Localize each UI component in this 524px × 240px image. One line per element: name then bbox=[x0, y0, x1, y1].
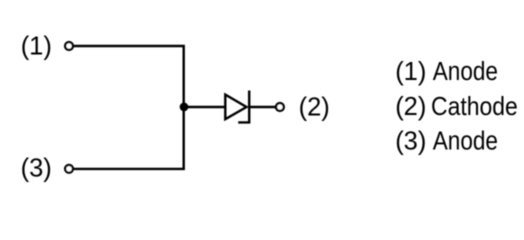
svg-text:Cathode: Cathode bbox=[431, 93, 518, 121]
svg-text:Anode: Anode bbox=[433, 58, 498, 87]
wire junction to diode anode bbox=[184, 106, 226, 108]
svg-text:Anode: Anode bbox=[433, 127, 498, 156]
terminal pin 1 (open circle) bbox=[65, 42, 73, 50]
terminal pin 2 (open circle) bbox=[276, 103, 284, 111]
terminal pin 3 (open circle) bbox=[65, 165, 73, 173]
wire diode cathode to pin 2 bbox=[249, 106, 275, 108]
svg-text:(1): (1) bbox=[395, 58, 426, 86]
junction node dot bbox=[180, 103, 189, 112]
svg-text:(2): (2) bbox=[395, 93, 426, 121]
diode D1 triangle (anode) bbox=[225, 95, 246, 120]
diode D1 cathode bar with bent foot bbox=[238, 91, 249, 123]
svg-text:(3): (3) bbox=[395, 127, 426, 155]
svg-text:(3): (3) bbox=[21, 154, 52, 182]
svg-text:(2): (2) bbox=[299, 93, 330, 121]
svg-text:(1): (1) bbox=[21, 33, 52, 61]
wire from pin 1 to junction column bbox=[74, 46, 184, 107]
wire from pin 3 to junction column bbox=[74, 107, 184, 169]
